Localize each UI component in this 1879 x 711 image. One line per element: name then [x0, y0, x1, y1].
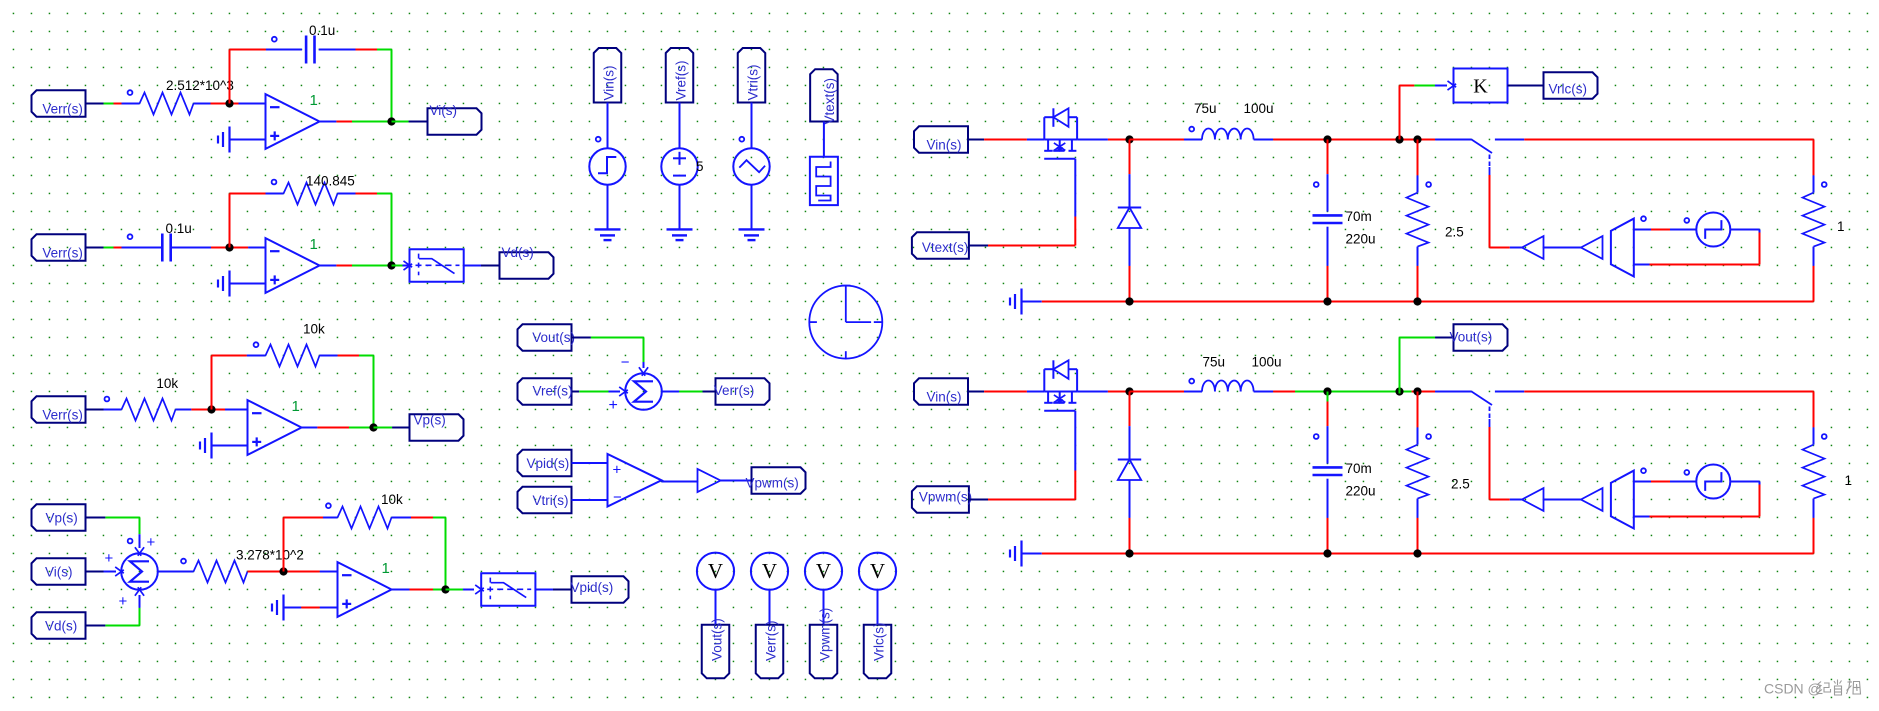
svg-text:−: − — [613, 489, 622, 506]
svg-text:10k: 10k — [381, 492, 403, 507]
svg-text:Vd(s): Vd(s) — [45, 619, 77, 634]
svg-text:0.1u: 0.1u — [309, 23, 335, 38]
svg-text:70m: 70m — [1346, 209, 1372, 224]
svg-text:100u: 100u — [1252, 355, 1282, 370]
svg-text:+: + — [147, 534, 156, 551]
svg-text:10k: 10k — [156, 376, 178, 391]
svg-text:1: 1 — [1845, 473, 1853, 488]
svg-text:Vin(s): Vin(s) — [927, 390, 962, 405]
svg-text:−: − — [621, 354, 630, 371]
svg-text:5: 5 — [696, 159, 704, 174]
svg-text:Vi(s): Vi(s) — [430, 103, 458, 118]
svg-text:2.512*10^3: 2.512*10^3 — [166, 78, 234, 93]
svg-text:Vref(s): Vref(s) — [674, 61, 689, 101]
svg-text:V: V — [762, 559, 777, 583]
svg-text:Vtext(s): Vtext(s) — [822, 78, 837, 125]
svg-text:Vtri(s): Vtri(s) — [746, 65, 761, 101]
svg-text:140.845: 140.845 — [306, 174, 355, 189]
svg-text:3.278*10^2: 3.278*10^2 — [236, 548, 304, 563]
svg-text:75u: 75u — [1194, 101, 1217, 116]
svg-text:+: + — [105, 550, 114, 567]
svg-text:1: 1 — [310, 92, 318, 109]
svg-text:10k: 10k — [303, 322, 325, 337]
svg-text:+: + — [613, 462, 622, 479]
svg-text:+: + — [119, 593, 128, 610]
svg-text:Vp(s): Vp(s) — [46, 511, 78, 526]
svg-text:Verr(s): Verr(s) — [714, 383, 755, 398]
svg-text:75u: 75u — [1203, 355, 1226, 370]
svg-text:K: K — [1473, 76, 1488, 98]
svg-text:1: 1 — [382, 560, 390, 577]
svg-text:70m: 70m — [1346, 461, 1372, 476]
svg-text:2.5: 2.5 — [1445, 225, 1464, 240]
svg-text:CSDN @: CSDN @ — [1764, 681, 1822, 697]
svg-text:Vpwm(s): Vpwm(s) — [919, 490, 972, 505]
svg-text:1: 1 — [292, 398, 300, 415]
svg-text:Verr(s): Verr(s) — [764, 621, 779, 662]
svg-text:Vi(s): Vi(s) — [45, 565, 73, 580]
svg-text:V: V — [870, 559, 885, 583]
svg-text:Vpid(s): Vpid(s) — [527, 456, 570, 471]
svg-text:V: V — [816, 559, 831, 583]
svg-text:Verr(s): Verr(s) — [42, 408, 83, 423]
svg-text:Vref(s): Vref(s) — [533, 384, 573, 399]
svg-text:Vpwm(s): Vpwm(s) — [818, 608, 833, 661]
svg-text:Vin(s): Vin(s) — [927, 138, 962, 153]
svg-text:Vout(s): Vout(s) — [532, 330, 575, 345]
svg-text:Vpid(s): Vpid(s) — [571, 580, 614, 595]
svg-text:0.1u: 0.1u — [166, 221, 192, 236]
svg-text:220u: 220u — [1346, 484, 1376, 499]
svg-text:Vin(s): Vin(s) — [602, 65, 617, 100]
svg-text:Vtext(s): Vtext(s) — [922, 240, 969, 255]
svg-text:V: V — [708, 559, 723, 583]
svg-text:Vout(s): Vout(s) — [1450, 330, 1493, 345]
svg-text:Verr(s): Verr(s) — [42, 102, 83, 117]
svg-text:Vp(s): Vp(s) — [414, 413, 446, 428]
svg-text:+: + — [609, 397, 618, 414]
svg-text:1: 1 — [1837, 219, 1845, 234]
svg-text:Vpwm(s): Vpwm(s) — [746, 476, 799, 491]
svg-text:100u: 100u — [1244, 101, 1274, 116]
svg-text:Verr(s): Verr(s) — [42, 246, 83, 261]
svg-text:Vrlc(s): Vrlc(s) — [1549, 82, 1588, 97]
svg-text:1: 1 — [310, 236, 318, 253]
svg-text:Vtri(s): Vtri(s) — [533, 493, 569, 508]
svg-text:Vout(s): Vout(s) — [710, 618, 725, 661]
svg-text:Vrlc(s): Vrlc(s) — [872, 623, 887, 662]
svg-text:2.5: 2.5 — [1451, 477, 1470, 492]
svg-text:Vd(s): Vd(s) — [502, 245, 534, 260]
svg-text:220u: 220u — [1346, 232, 1376, 247]
